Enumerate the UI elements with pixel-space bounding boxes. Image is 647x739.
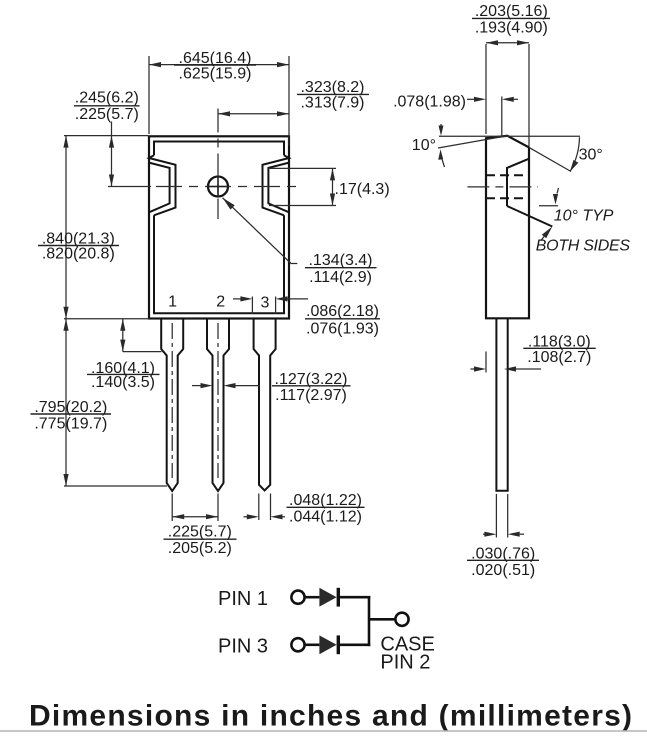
side view tab body xyxy=(486,136,529,318)
svg-text:.108(2.7): .108(2.7) xyxy=(527,349,591,366)
svg-text:.313(7.9): .313(7.9) xyxy=(300,95,364,112)
angle 10 deg TYP note xyxy=(539,188,614,225)
dimension .118(3.0)/.108(2.7) pin thickness xyxy=(471,333,596,372)
pin 2 (front view lead) xyxy=(207,319,229,492)
pin 2 centerline xyxy=(217,323,219,478)
side view 30 deg slant construction xyxy=(529,147,571,171)
dimension .048(1.22)/.044(1.12) pin tip width xyxy=(244,492,365,525)
svg-text:.775(19.7): .775(19.7) xyxy=(34,415,107,432)
svg-text:.625(15.9): .625(15.9) xyxy=(179,66,252,83)
bottom rule xyxy=(0,730,647,732)
diode D2 xyxy=(319,635,340,654)
svg-text:1: 1 xyxy=(168,294,177,311)
side view 10 deg top slant construction xyxy=(438,136,508,148)
dimension .086(2.18)/.076(1.93) pin width at base xyxy=(233,296,380,337)
pin 1 centerline xyxy=(171,323,173,478)
svg-text:PIN 1: PIN 1 xyxy=(218,588,268,610)
hole vertical centerline xyxy=(217,109,219,220)
svg-text:.323(8.2): .323(8.2) xyxy=(300,79,364,96)
side view hole centerline xyxy=(467,186,538,188)
terminal CASE PIN 2 xyxy=(395,613,408,626)
front view right notch xyxy=(263,155,290,215)
dimension .645(16.4)/.625(15.9) package width xyxy=(149,50,289,146)
dimension .17(4.3) notch height xyxy=(269,168,390,205)
svg-text:.048(1.22): .048(1.22) xyxy=(289,492,362,509)
wire diode D2 to junction xyxy=(340,643,371,646)
side view hidden hole lines xyxy=(486,175,529,198)
dimension .840(21.3)/.820(20.8) body height xyxy=(38,136,149,319)
svg-text:10°: 10° xyxy=(412,137,436,154)
junction wires to case terminal xyxy=(369,596,395,646)
svg-text:Dimensions in inches and (mill: Dimensions in inches and (millimeters) xyxy=(29,700,633,733)
svg-text:3: 3 xyxy=(261,295,270,312)
svg-text:.076(1.93): .076(1.93) xyxy=(306,320,379,337)
wire pin1 to diode D1 xyxy=(305,596,320,599)
dimension .134(3.4)/.114(2.9) hole diameter leader xyxy=(223,198,377,287)
svg-text:.245(6.2): .245(6.2) xyxy=(75,89,139,106)
dimension .245(6.2)/.225(5.7) top to hole centre xyxy=(74,89,140,186)
svg-text:BOTH SIDES: BOTH SIDES xyxy=(536,237,631,254)
side view top construction line xyxy=(439,135,580,137)
terminal PIN 1 xyxy=(291,591,304,604)
wire pin3 to diode D2 xyxy=(305,643,320,646)
angle 10 deg top note xyxy=(412,124,445,167)
svg-text:.134(3.4): .134(3.4) xyxy=(308,252,372,269)
wire diode D1 to junction xyxy=(340,596,371,599)
pin 1 (front view lead) xyxy=(161,319,183,492)
dimension .160(4.1)/.140(3.5) shoulder length xyxy=(87,319,162,391)
svg-text:.225(5.7): .225(5.7) xyxy=(75,106,139,123)
svg-text:.140(3.5): .140(3.5) xyxy=(91,374,155,391)
pin 3 (front view lead) xyxy=(254,319,276,491)
BOTH SIDES note xyxy=(536,227,631,255)
dimension .795(20.2)/.775(19.7) pin length xyxy=(31,319,168,486)
front view inner chamfer line xyxy=(154,142,284,314)
svg-text:.205(5.2): .205(5.2) xyxy=(168,540,232,557)
svg-text:.086(2.18): .086(2.18) xyxy=(306,303,379,320)
dimension .203(5.16)/.193(4.90) tab thickness xyxy=(472,3,550,146)
svg-text:30°: 30° xyxy=(579,146,603,163)
front view left notch xyxy=(149,155,176,215)
front view package body outline xyxy=(149,136,289,318)
dimension .225(5.7)/.205(5.2) pin pitch xyxy=(164,494,237,557)
svg-text:.117(2.97): .117(2.97) xyxy=(275,387,347,404)
svg-text:PIN 2: PIN 2 xyxy=(380,652,430,674)
svg-text:PIN 3: PIN 3 xyxy=(218,636,268,658)
dimension .323(8.2)/.313(7.9) hole centre to edge xyxy=(218,79,369,116)
svg-text:10° TYP: 10° TYP xyxy=(554,208,614,225)
mounting hole xyxy=(208,177,228,197)
side view hole boss xyxy=(507,159,552,227)
svg-text:.193(4.90): .193(4.90) xyxy=(475,19,548,36)
svg-text:.203(5.16): .203(5.16) xyxy=(475,3,548,20)
dimension .127(3.22)/.117(2.97) pin width xyxy=(192,371,351,404)
svg-text:.17(4.3): .17(4.3) xyxy=(335,181,390,198)
diode D1 xyxy=(319,588,340,607)
svg-text:.044(1.12): .044(1.12) xyxy=(289,508,362,525)
svg-text:2: 2 xyxy=(216,294,225,311)
terminal PIN 3 xyxy=(291,638,304,651)
angle 30 deg note with arc xyxy=(570,137,603,172)
svg-text:.225(5.7): .225(5.7) xyxy=(168,524,232,541)
dimension .078(1.98) peak offset xyxy=(393,94,518,136)
side view pin xyxy=(496,318,507,491)
svg-text:.020(.51): .020(.51) xyxy=(471,562,535,579)
hole horizontal centerline xyxy=(108,186,296,188)
dimension .030(.76)/.020(.51) pin tip thickness xyxy=(467,494,539,579)
svg-text:.820(20.8): .820(20.8) xyxy=(42,246,115,263)
svg-text:.114(2.9): .114(2.9) xyxy=(309,269,372,286)
svg-text:.078(1.98): .078(1.98) xyxy=(393,94,466,111)
